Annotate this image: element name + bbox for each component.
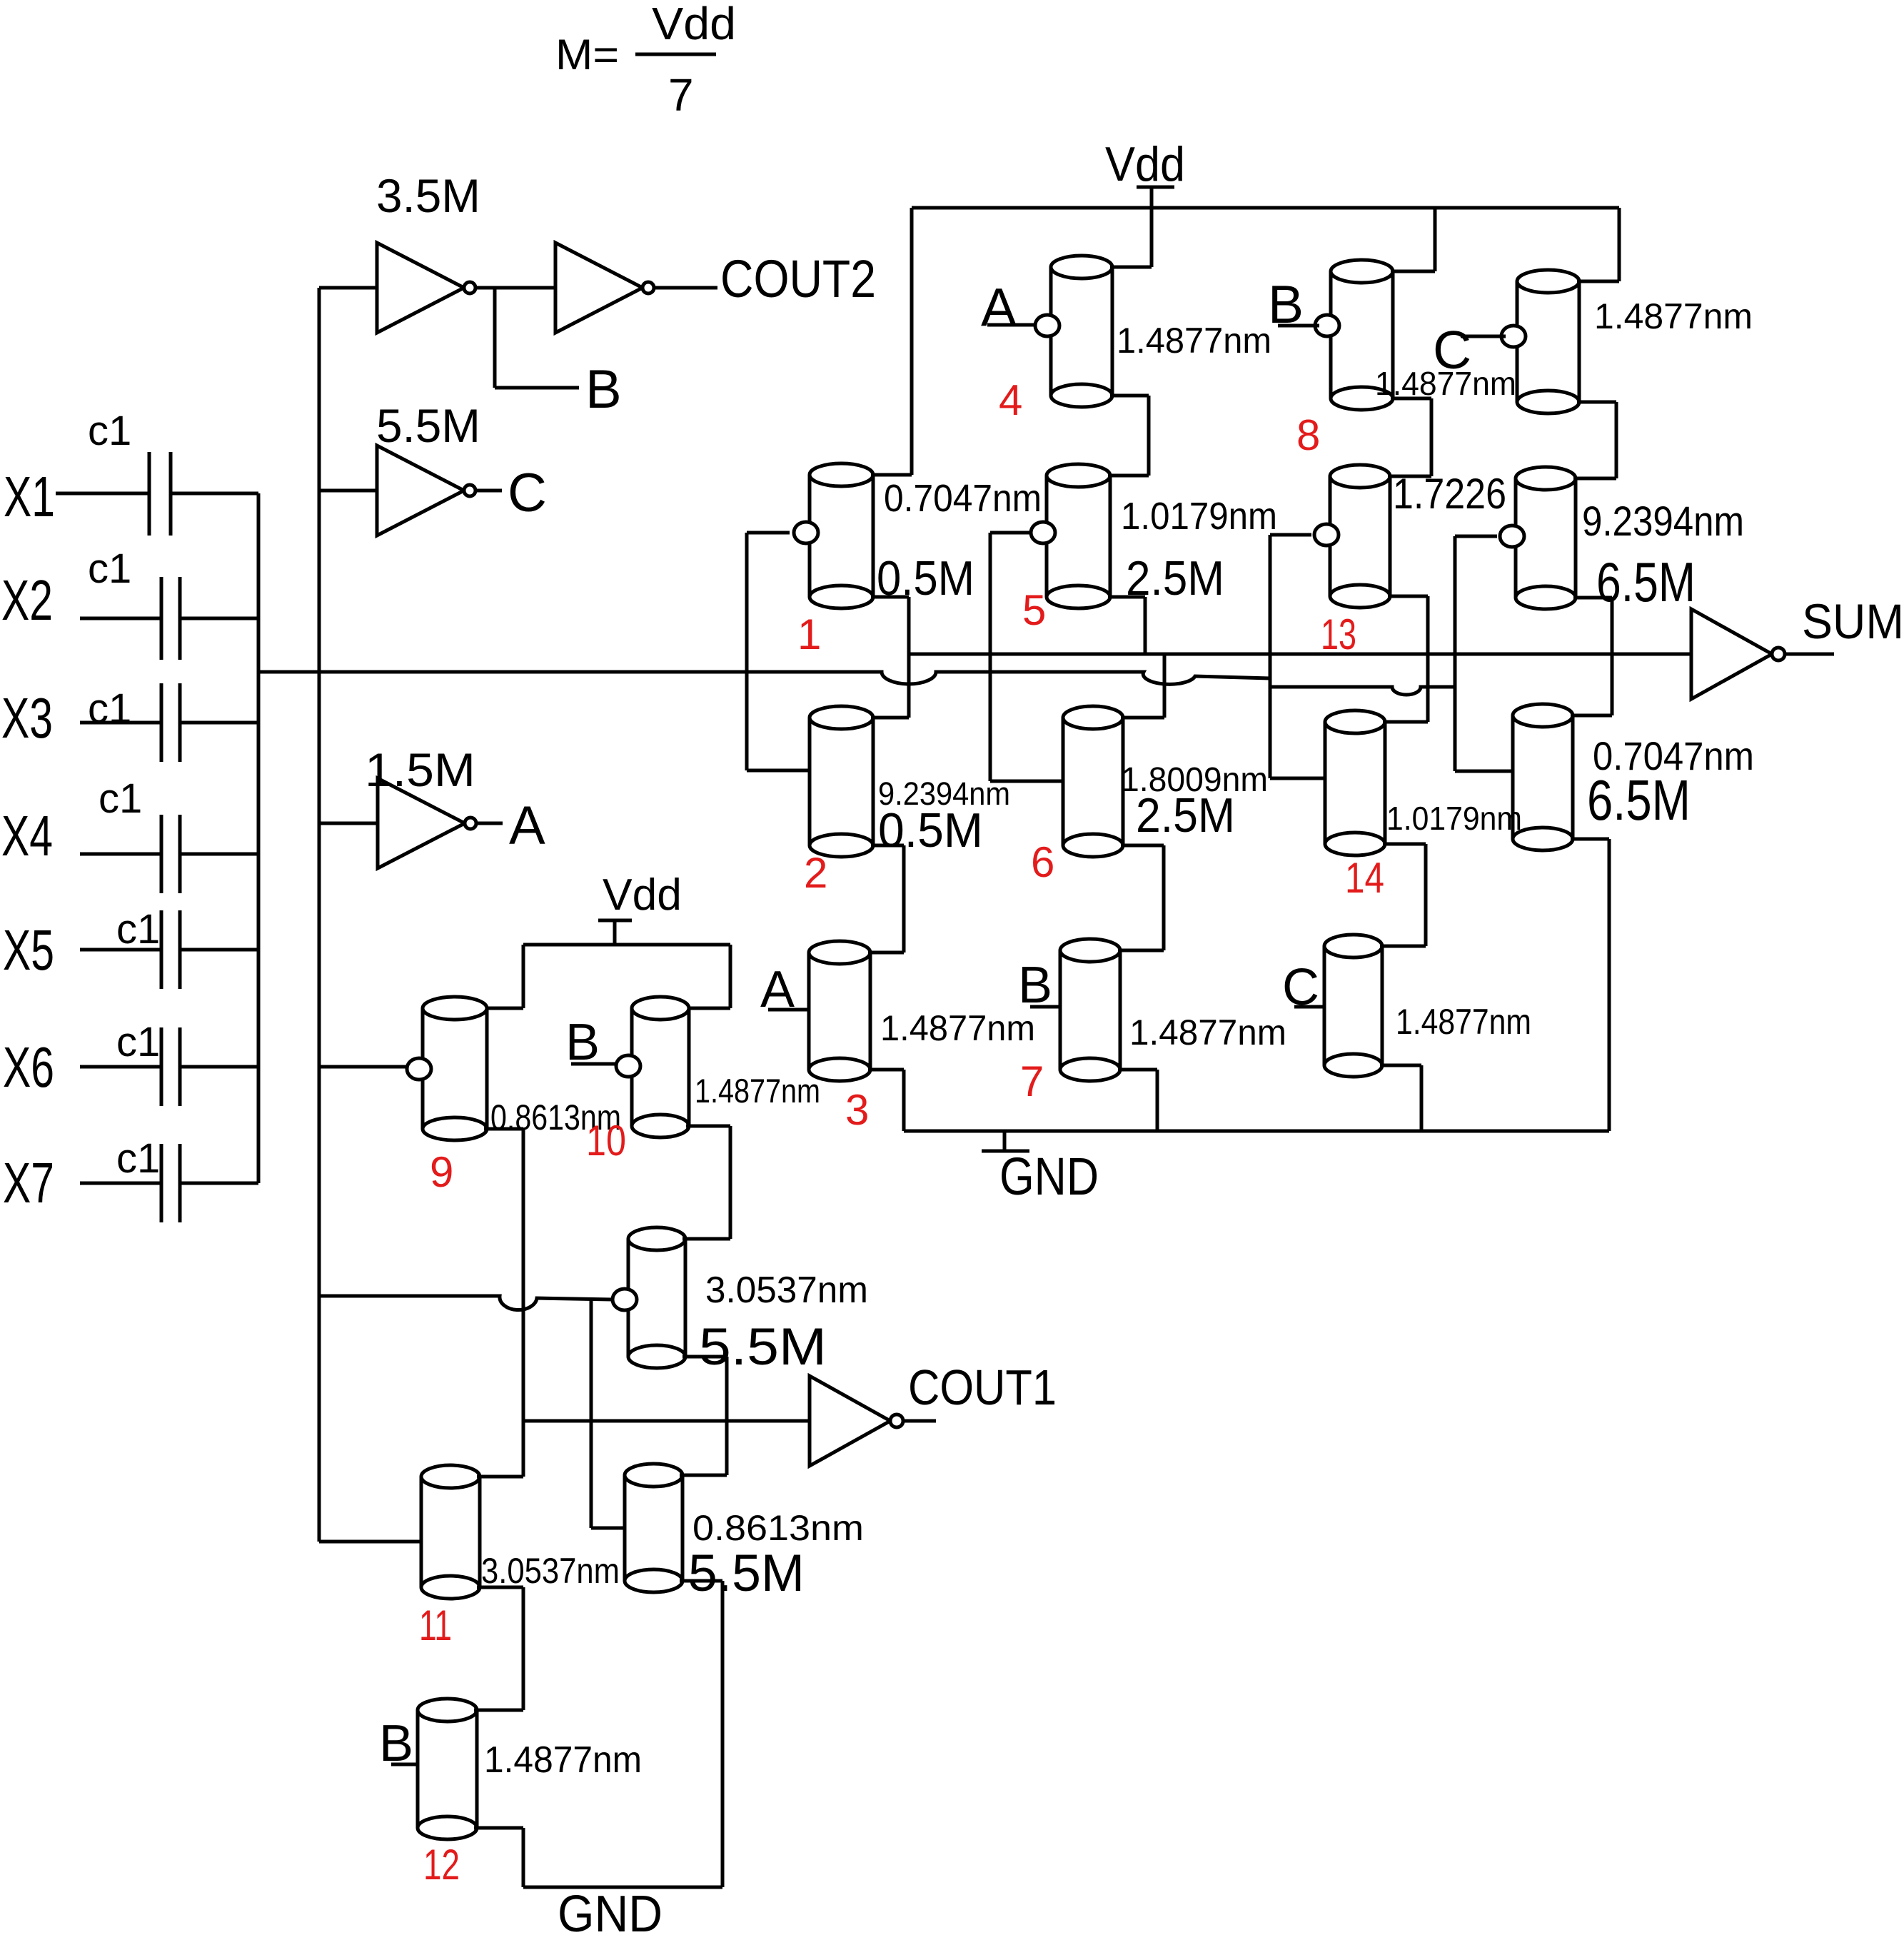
svg-text:0.5M: 0.5M xyxy=(877,551,974,605)
svg-text:GND: GND xyxy=(999,1147,1099,1206)
svg-text:0.7047nm: 0.7047nm xyxy=(884,477,1042,520)
svg-text:1.4877nm: 1.4877nm xyxy=(695,1072,820,1110)
svg-text:9.2394nm: 9.2394nm xyxy=(1582,498,1744,545)
svg-text:14: 14 xyxy=(1345,854,1384,902)
svg-text:11: 11 xyxy=(419,1602,452,1649)
svg-text:3.5M: 3.5M xyxy=(376,169,480,222)
svg-text:COUT2: COUT2 xyxy=(720,249,876,308)
svg-text:c1: c1 xyxy=(99,775,142,822)
svg-text:3.0537nm: 3.0537nm xyxy=(705,1270,868,1311)
svg-text:A: A xyxy=(509,795,545,856)
svg-text:c1: c1 xyxy=(88,685,131,732)
svg-text:X6: X6 xyxy=(3,1035,54,1099)
svg-text:10: 10 xyxy=(586,1117,626,1165)
svg-text:X3: X3 xyxy=(1,686,53,750)
svg-text:1.4877nm: 1.4877nm xyxy=(1396,1002,1531,1042)
svg-text:B: B xyxy=(1018,957,1052,1014)
svg-text:1.4877nm: 1.4877nm xyxy=(1129,1012,1286,1052)
svg-text:c1: c1 xyxy=(88,546,131,592)
svg-text:1.4877nm: 1.4877nm xyxy=(880,1008,1035,1048)
svg-text:A: A xyxy=(981,277,1017,337)
svg-text:5.5M: 5.5M xyxy=(699,1318,827,1376)
svg-text:X4: X4 xyxy=(1,804,53,868)
svg-text:B: B xyxy=(1268,274,1304,334)
svg-text:2: 2 xyxy=(804,849,827,897)
svg-text:Vdd: Vdd xyxy=(652,0,736,49)
svg-text:B: B xyxy=(565,1014,600,1071)
svg-text:13: 13 xyxy=(1321,610,1356,658)
svg-text:1.0179nm: 1.0179nm xyxy=(1386,800,1522,837)
svg-text:1.4877nm: 1.4877nm xyxy=(1594,296,1753,336)
svg-text:SUM: SUM xyxy=(1802,594,1904,649)
svg-text:X5: X5 xyxy=(3,918,54,982)
svg-text:9: 9 xyxy=(430,1148,453,1196)
svg-text:0.8613nm: 0.8613nm xyxy=(692,1508,864,1548)
svg-text:X7: X7 xyxy=(3,1151,54,1215)
svg-text:1.7226: 1.7226 xyxy=(1393,470,1506,518)
svg-text:Vdd: Vdd xyxy=(603,870,682,920)
svg-text:7: 7 xyxy=(1020,1057,1044,1105)
svg-text:c1: c1 xyxy=(116,906,160,953)
svg-text:GND: GND xyxy=(558,1886,663,1940)
svg-text:c1: c1 xyxy=(116,1135,160,1182)
svg-text:4: 4 xyxy=(999,376,1022,424)
svg-text:2.5M: 2.5M xyxy=(1126,551,1224,605)
svg-text:1.0179nm: 1.0179nm xyxy=(1121,495,1277,538)
svg-text:A: A xyxy=(760,961,795,1018)
svg-text:5: 5 xyxy=(1022,586,1046,634)
svg-text:1.4877nm: 1.4877nm xyxy=(484,1739,642,1781)
svg-text:M=: M= xyxy=(555,31,619,79)
svg-text:C: C xyxy=(1282,959,1319,1016)
svg-text:2.5M: 2.5M xyxy=(1136,788,1235,843)
svg-text:c1: c1 xyxy=(116,1019,160,1065)
svg-text:6: 6 xyxy=(1031,838,1054,886)
svg-text:1: 1 xyxy=(797,610,821,658)
svg-text:5.5M: 5.5M xyxy=(376,399,480,452)
svg-text:1.4877nm: 1.4877nm xyxy=(1117,321,1271,361)
svg-text:3.0537nm: 3.0537nm xyxy=(481,1551,620,1591)
svg-text:X1: X1 xyxy=(4,465,55,528)
svg-text:c1: c1 xyxy=(88,408,131,454)
svg-text:3: 3 xyxy=(845,1086,869,1134)
svg-text:6.5M: 6.5M xyxy=(1596,551,1696,613)
svg-text:1.4877nm: 1.4877nm xyxy=(1375,365,1516,402)
svg-text:X2: X2 xyxy=(1,568,53,632)
svg-text:8: 8 xyxy=(1296,411,1320,459)
svg-text:B: B xyxy=(585,359,622,420)
svg-text:12: 12 xyxy=(423,1841,460,1889)
svg-text:6.5M: 6.5M xyxy=(1587,768,1691,832)
svg-text:7: 7 xyxy=(668,69,694,121)
svg-text:5.5M: 5.5M xyxy=(688,1544,805,1602)
svg-text:1.5M: 1.5M xyxy=(365,743,475,796)
svg-text:0.5M: 0.5M xyxy=(878,803,983,858)
svg-text:Vdd: Vdd xyxy=(1105,137,1185,191)
svg-text:COUT1: COUT1 xyxy=(908,1359,1057,1415)
svg-text:C: C xyxy=(508,463,547,523)
svg-text:B: B xyxy=(379,1715,413,1772)
